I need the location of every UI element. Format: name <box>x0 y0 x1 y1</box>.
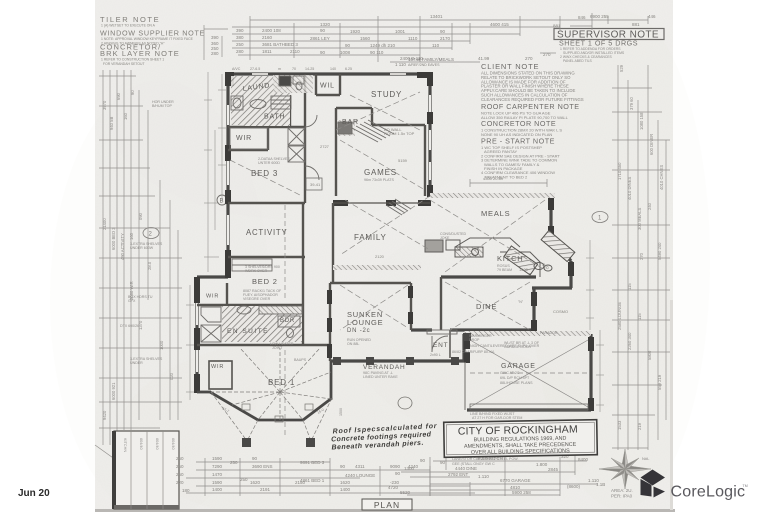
svg-text:559 219: 559 219 <box>657 374 662 390</box>
svg-text:88L/HOUSE PLANS: 88L/HOUSE PLANS <box>500 381 533 385</box>
svg-text:DROP: DROP <box>469 338 480 342</box>
svg-text:ON 88L: ON 88L <box>347 342 359 346</box>
svg-text:WIR: WIR <box>236 135 252 142</box>
svg-text:600 DINER: 600 DINER <box>649 134 654 155</box>
svg-text:1 (A) WETSET TO EXECUTE ON A: 1 (A) WETSET TO EXECUTE ON A <box>101 24 156 28</box>
svg-text:1.110: 1.110 <box>478 474 489 479</box>
svg-text:EN SUITE: EN SUITE <box>227 328 269 335</box>
svg-text:2861 LEY: 2861 LEY <box>310 36 330 41</box>
svg-text:1560: 1560 <box>360 36 371 41</box>
svg-text:AT 27 H FOR GAR-DOR STEM: AT 27 H FOR GAR-DOR STEM <box>472 416 522 420</box>
svg-text:PER: IPA0: PER: IPA0 <box>611 494 633 499</box>
svg-text:160: 160 <box>129 232 134 240</box>
svg-text:1590: 1590 <box>212 480 223 485</box>
svg-text:BED 2: BED 2 <box>252 277 278 286</box>
svg-text:3970: 3970 <box>102 100 107 110</box>
svg-text:TM: TM <box>743 484 748 488</box>
svg-text:446: 446 <box>648 14 656 19</box>
svg-text:4440 DINE: 4440 DINE <box>455 466 477 471</box>
svg-text:96m 73x39 PLATS: 96m 73x39 PLATS <box>364 178 395 182</box>
svg-text:86/82 CHAR/FURP 80./44.: 86/82 CHAR/FURP 80./44. <box>452 350 495 354</box>
svg-text:KITCHN: KITCHN <box>123 438 127 452</box>
svg-text:9420: 9420 <box>102 410 107 420</box>
svg-text:2845: 2845 <box>548 467 559 472</box>
svg-text:m: m <box>278 67 281 71</box>
svg-text:1470: 1470 <box>212 472 223 477</box>
svg-text:FOR VERANDAH SETOUT: FOR VERANDAH SETOUT <box>103 62 145 66</box>
svg-text:GFX: GFX <box>128 299 136 303</box>
svg-text:1920: 1920 <box>350 29 361 34</box>
svg-text:90: 90 <box>420 458 426 463</box>
svg-text:1001: 1001 <box>395 29 406 34</box>
svg-text:90: 90 <box>395 471 401 476</box>
svg-text:7290: 7290 <box>212 464 223 469</box>
svg-text:JOINT: JOINT <box>272 346 283 350</box>
svg-text:90 110: 90 110 <box>370 50 384 55</box>
svg-text:VERANDAH: VERANDAH <box>363 364 406 371</box>
svg-text:DINE: DINE <box>476 302 497 311</box>
svg-text:250: 250 <box>176 464 184 469</box>
svg-text:BDR: BDR <box>280 318 295 324</box>
svg-text:14-25: 14-25 <box>305 67 314 71</box>
svg-text:270: 270 <box>525 56 533 61</box>
svg-text:6000 921: 6000 921 <box>111 382 116 400</box>
svg-text:6770 GARAGE: 6770 GARAGE <box>500 478 531 483</box>
svg-text:CoreLogic: CoreLogic <box>671 484 746 501</box>
svg-text:219: 219 <box>637 422 642 430</box>
svg-text:UNDER: UNDER <box>130 361 143 365</box>
svg-text:GARAGE: GARAGE <box>501 363 536 370</box>
svg-text:1811: 1811 <box>262 49 272 54</box>
svg-text:490 ACTIVITY: 490 ACTIVITY <box>120 233 125 260</box>
svg-text:380: 380 <box>236 35 244 40</box>
svg-text:BED 3: BED 3 <box>251 169 278 178</box>
svg-text:1300: 1300 <box>404 466 415 471</box>
svg-text:90: 90 <box>130 90 135 95</box>
svg-text:240: 240 <box>647 202 652 210</box>
svg-text:41.99: 41.99 <box>478 56 490 61</box>
svg-text:1533: 1533 <box>617 420 622 430</box>
svg-text:5900 258: 5900 258 <box>512 490 531 495</box>
svg-text:140: 140 <box>330 67 336 71</box>
svg-text:1000: 1000 <box>159 340 164 350</box>
svg-text:STUDY: STUDY <box>371 90 402 99</box>
svg-text:6900 255: 6900 255 <box>590 14 609 19</box>
svg-text:2400 108: 2400 108 <box>262 28 281 33</box>
svg-text:2150: 2150 <box>295 480 306 485</box>
svg-text:GIAC AT 2C: GIAC AT 2C <box>500 371 520 375</box>
svg-text:4010 CHNES: 4010 CHNES <box>659 165 664 190</box>
svg-text:DTX 600/26: DTX 600/26 <box>120 324 139 328</box>
svg-text:1400: 1400 <box>212 487 223 492</box>
svg-text:881: 881 <box>632 22 640 27</box>
svg-text:"N": "N" <box>518 300 524 304</box>
svg-text:90: 90 <box>252 456 258 461</box>
svg-text:AREA: 2U.: AREA: 2U. <box>611 488 633 493</box>
svg-text:DN -2c: DN -2c <box>347 328 370 334</box>
svg-text:B/HUM TOP: B/HUM TOP <box>152 104 172 108</box>
svg-text:280: 280 <box>211 51 219 56</box>
svg-text:940 5B: 940 5B <box>109 117 114 130</box>
svg-text:UNDER 600W: UNDER 600W <box>130 246 154 250</box>
svg-text:GARAGE DOOR: GARAGE DOOR <box>504 345 532 349</box>
svg-text:KITCH: KITCH <box>497 254 524 263</box>
svg-text:4720: 4720 <box>388 485 399 490</box>
svg-text:115: 115 <box>637 313 642 320</box>
svg-text:A/VC: A/VC <box>232 67 241 71</box>
svg-text:WDRK OVER: WDRK OVER <box>245 269 268 273</box>
svg-text:10746 FAMILY/MEALS: 10746 FAMILY/MEALS <box>408 57 454 62</box>
svg-text:110: 110 <box>432 43 440 48</box>
svg-text:2792 ENT: 2792 ENT <box>448 472 469 477</box>
svg-text:180: 180 <box>182 488 190 493</box>
svg-text:270: 270 <box>639 252 644 260</box>
svg-text:5490 240: 5490 240 <box>657 242 662 260</box>
svg-text:2580 LOUNGE: 2580 LOUNGE <box>617 302 622 330</box>
svg-text:BED 1: BED 1 <box>268 378 295 387</box>
svg-text:N#L: N#L <box>642 456 650 461</box>
svg-text:JOKE: JOKE <box>440 236 450 240</box>
svg-text:PLAN: PLAN <box>374 500 400 510</box>
svg-text:6.25: 6.25 <box>345 67 352 71</box>
svg-text:604/40: 604/40 <box>171 438 175 450</box>
svg-text:90: 90 <box>320 28 326 33</box>
svg-text:ACTIVITY: ACTIVITY <box>246 228 288 237</box>
svg-text:529: 529 <box>619 64 624 72</box>
svg-text:GAMES: GAMES <box>364 168 397 177</box>
svg-text:2170: 2170 <box>440 36 451 41</box>
svg-text:1110: 1110 <box>408 36 418 41</box>
svg-text:4240 LOUNGE: 4240 LOUNGE <box>345 473 375 478</box>
svg-text:250: 250 <box>236 42 244 47</box>
svg-text:A/REF/2ND EAVES: A/REF/2ND EAVES <box>408 63 440 67</box>
svg-text:1500: 1500 <box>339 408 343 416</box>
svg-text:90: 90 <box>340 464 346 469</box>
svg-text:379 60: 379 60 <box>629 97 634 110</box>
svg-text:4311: 4311 <box>355 464 365 469</box>
svg-text:3690 ENS: 3690 ENS <box>252 464 273 469</box>
svg-text:5159: 5159 <box>398 158 408 163</box>
svg-text:1.800: 1.800 <box>536 462 548 467</box>
svg-text:2191: 2191 <box>260 487 271 492</box>
svg-text:27-6.5: 27-6.5 <box>250 67 260 71</box>
svg-text:390: 390 <box>236 28 244 33</box>
svg-text:604/40: 604/40 <box>139 438 143 450</box>
svg-text:Jun 20: Jun 20 <box>18 488 50 499</box>
svg-text:1710 450: 1710 450 <box>617 162 622 180</box>
svg-text:604/40: 604/40 <box>155 438 159 450</box>
svg-text:250: 250 <box>230 460 238 465</box>
svg-text:28.0: 28.0 <box>147 261 152 270</box>
svg-text:LINED UNTER RAKE: LINED UNTER RAKE <box>363 375 398 379</box>
svg-text:70: 70 <box>292 67 296 71</box>
svg-text:PANEL ABED TILS: PANEL ABED TILS <box>563 59 593 63</box>
svg-text:2260 340: 2260 340 <box>627 332 632 350</box>
svg-text:90: 90 <box>395 464 401 469</box>
svg-text:250: 250 <box>176 472 184 477</box>
svg-text:020: 020 <box>169 372 174 380</box>
svg-text:5800: 5800 <box>647 350 652 360</box>
svg-text:220: 220 <box>176 480 184 485</box>
svg-text:WIL: WIL <box>320 83 335 90</box>
svg-text:1600: 1600 <box>519 267 529 272</box>
svg-text:6000 BED 3: 6000 BED 3 <box>111 227 116 250</box>
svg-text:1080 158: 1080 158 <box>639 112 644 130</box>
svg-text:280: 280 <box>236 49 244 54</box>
svg-text:1249 dh 210: 1249 dh 210 <box>370 43 396 48</box>
svg-text:4010 DINES: 4010 DINES <box>627 177 632 200</box>
svg-text:390: 390 <box>211 35 219 40</box>
svg-text:846: 846 <box>578 15 586 20</box>
svg-text:4600 415: 4600 415 <box>490 22 509 27</box>
svg-text:ROOM 1.5x TOP: ROOM 1.5x TOP <box>384 131 415 136</box>
svg-text:9891 BED 3: 9891 BED 3 <box>300 460 325 465</box>
svg-text:COSMO: COSMO <box>553 309 568 314</box>
svg-text:250: 250 <box>240 477 248 482</box>
svg-text:2727: 2727 <box>320 144 330 149</box>
svg-text:69L D/P RCH 4PT: 69L D/P RCH 4PT <box>500 376 530 380</box>
svg-text:1620: 1620 <box>250 480 261 485</box>
svg-text:BAUPS: BAUPS <box>294 358 307 362</box>
svg-text:1620: 1620 <box>340 480 351 485</box>
svg-text:B: B <box>220 199 224 205</box>
svg-text:3681 BATHBED 3: 3681 BATHBED 3 <box>262 42 298 47</box>
svg-text:5520: 5520 <box>400 490 411 495</box>
svg-text:21400: 21400 <box>102 218 107 230</box>
svg-text:690: 690 <box>116 92 121 100</box>
svg-text:WIR: WIR <box>206 294 219 300</box>
svg-text:1.110: 1.110 <box>588 478 599 483</box>
svg-text:4300 20.89: 4300 20.89 <box>483 176 504 181</box>
svg-text:FAMILY: FAMILY <box>354 233 387 242</box>
svg-text:79 BEAM: 79 BEAM <box>497 268 512 272</box>
svg-text:115: 115 <box>627 283 632 290</box>
svg-text:250: 250 <box>176 456 184 461</box>
svg-text:LOUNGE: LOUNGE <box>347 318 383 327</box>
svg-text:1 110: 1 110 <box>395 62 406 67</box>
svg-text:MEALS: MEALS <box>481 209 510 218</box>
svg-text:BAR: BAR <box>342 119 359 126</box>
svg-text:(8600): (8600) <box>567 484 581 489</box>
svg-text:WIR: WIR <box>211 364 224 370</box>
svg-text:BATH: BATH <box>264 114 285 121</box>
svg-text:1590: 1590 <box>212 456 223 461</box>
svg-text:90: 90 <box>345 43 351 48</box>
svg-text:UNTER 600D: UNTER 600D <box>258 161 280 165</box>
svg-text:1400: 1400 <box>340 487 351 492</box>
svg-text:300 MEALS: 300 MEALS <box>637 207 642 230</box>
svg-text:13401: 13401 <box>430 14 443 19</box>
svg-text:090: 090 <box>138 212 143 220</box>
svg-text:ENT: ENT <box>433 342 448 349</box>
svg-text:2110: 2110 <box>290 49 300 54</box>
svg-text:1008: 1008 <box>340 50 351 55</box>
svg-text:90: 90 <box>320 50 326 55</box>
svg-text:2160: 2160 <box>262 35 273 40</box>
svg-text:90: 90 <box>440 29 446 34</box>
svg-text:2120: 2120 <box>375 254 385 259</box>
svg-text:8400: 8400 <box>578 457 589 462</box>
svg-text:VISEGRE OVER: VISEGRE OVER <box>243 297 271 301</box>
svg-text:PARADOR.: PARADOR. <box>540 331 559 335</box>
svg-text:1320: 1320 <box>320 22 331 27</box>
svg-text:160: 160 <box>123 112 128 120</box>
svg-text:39-41: 39-41 <box>310 182 321 187</box>
svg-text:2x90 L: 2x90 L <box>430 353 441 357</box>
